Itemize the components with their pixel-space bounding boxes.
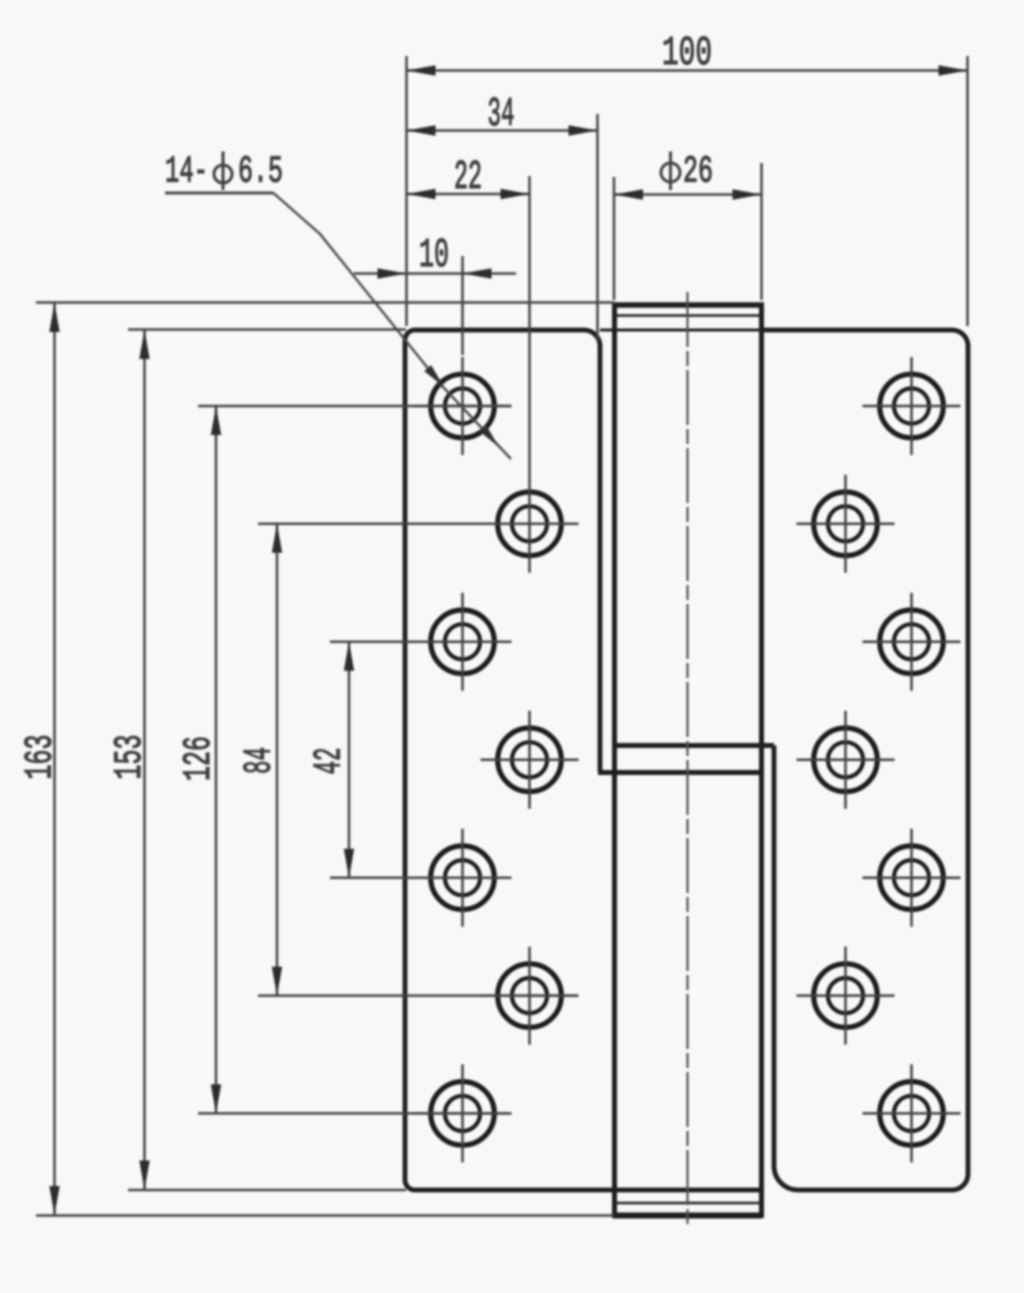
hole R5	[863, 829, 961, 927]
dimension 100	[407, 56, 968, 326]
hole L3	[414, 593, 512, 691]
dimension phi26	[614, 163, 762, 300]
dimension 22	[407, 176, 530, 475]
hole L4	[481, 711, 579, 809]
hole L6	[481, 947, 579, 1045]
barrel bottom thin line	[613, 1202, 762, 1204]
svg-text:26: 26	[683, 151, 713, 194]
hole L1	[414, 357, 512, 455]
svg-text:34: 34	[488, 92, 515, 138]
dimension 34	[407, 114, 598, 342]
svg-text:6.5: 6.5	[238, 151, 283, 194]
dimension 10	[354, 256, 516, 355]
hole L2	[481, 475, 579, 573]
svg-text:163: 163	[19, 735, 63, 780]
svg-text:14-: 14-	[165, 151, 208, 194]
hole R2	[797, 475, 895, 573]
dimension 42	[330, 642, 511, 878]
barrel top cap	[612, 302, 764, 308]
hole R7	[863, 1064, 961, 1162]
svg-text:100: 100	[662, 31, 712, 77]
barrel center line	[686, 292, 688, 1228]
barrel joint lower line	[598, 770, 763, 775]
hole R4	[797, 711, 895, 809]
barrel right edge	[759, 303, 764, 1218]
right leaf plate outline	[762, 330, 968, 1190]
hole R3	[863, 593, 961, 691]
dimension 84	[258, 524, 578, 996]
svg-text:153: 153	[108, 735, 152, 780]
left leaf plate outline	[405, 330, 760, 1190]
barrel knuckle top line across	[600, 329, 762, 332]
hole L7	[414, 1064, 512, 1162]
barrel bottom cap	[613, 1213, 762, 1219]
dimension 163	[36, 303, 614, 1216]
svg-text:42: 42	[308, 748, 352, 775]
svg-text:10: 10	[419, 233, 449, 279]
svg-text:84: 84	[238, 747, 282, 774]
hole L5	[414, 829, 512, 927]
hole R1	[863, 357, 961, 455]
barrel joint upper line	[612, 743, 774, 748]
svg-text:126: 126	[177, 736, 221, 781]
svg-text:22: 22	[454, 155, 482, 201]
dimension 153	[128, 330, 406, 1191]
hole R6	[797, 947, 895, 1045]
label 14-phi6.5 with leader	[165, 151, 511, 460]
dimension 126	[198, 406, 511, 1113]
barrel left edge	[612, 303, 617, 1218]
